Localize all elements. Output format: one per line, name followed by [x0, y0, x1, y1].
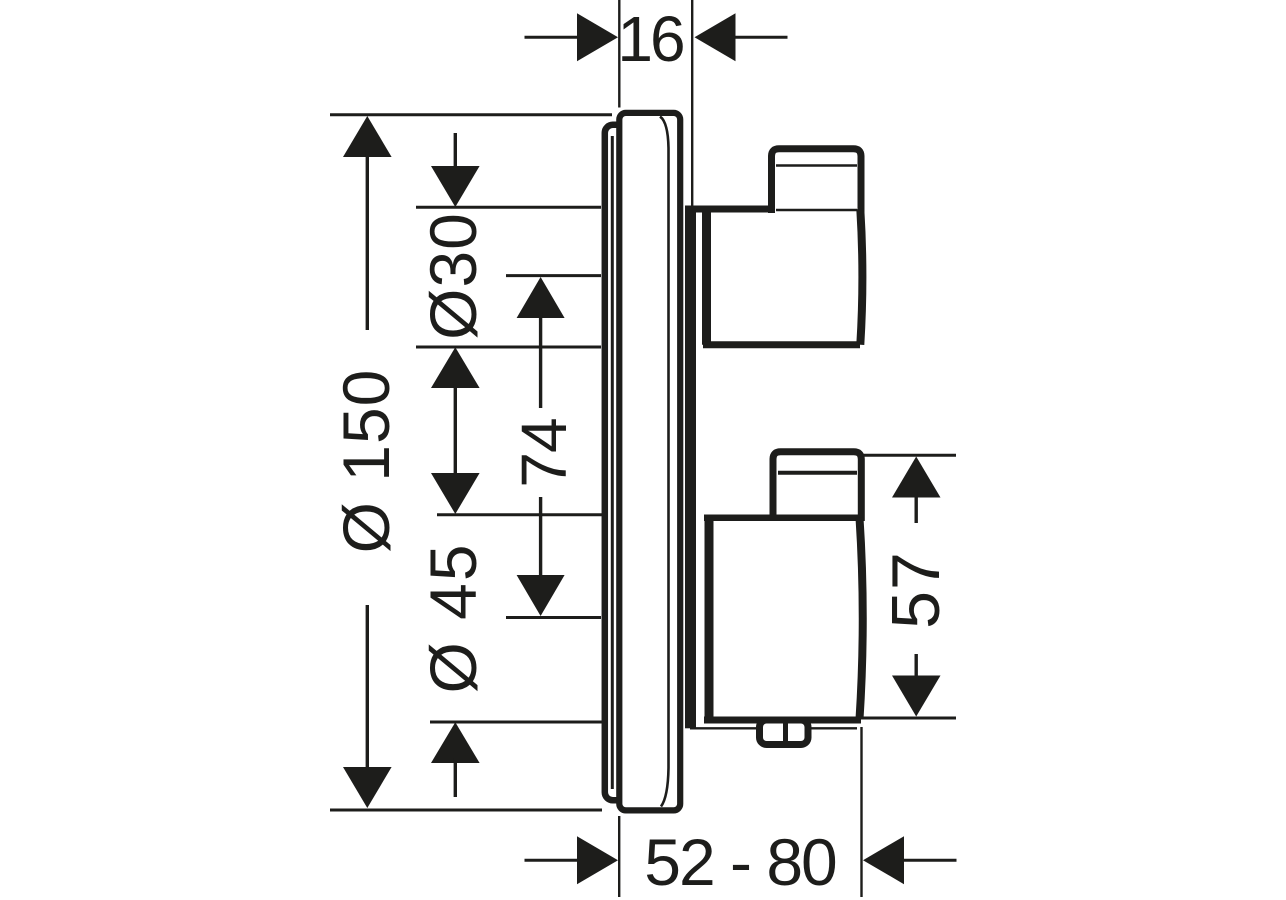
- dimension 74 upper tail: [539, 312, 542, 408]
- dimension D30 top arrow: [431, 166, 480, 207]
- svg-text:Ø 150: Ø 150: [329, 369, 403, 554]
- upper knob body top edge behind grip: [776, 209, 857, 211]
- dimension 57 bottom arrow: [892, 676, 941, 717]
- dimension 52-80 left tail: [525, 859, 582, 862]
- upper handle grip outline: [772, 149, 862, 213]
- dimension 74 bottom extension line: [506, 616, 601, 619]
- lower knob body left edge: [705, 518, 714, 720]
- dimension 16 left arrow: [577, 13, 618, 61]
- escutcheon front plate outline: [619, 113, 680, 811]
- upper knob body bottom edge: [703, 341, 860, 348]
- hub bottom thin line: [690, 727, 857, 729]
- shared tail D30-D45: [454, 384, 457, 473]
- dimension 52-80 left arrow: [577, 836, 618, 884]
- svg-text:52 - 80: 52 - 80: [644, 825, 836, 899]
- dimension D150 top extension line: [330, 113, 612, 116]
- lower knob body bottom edge: [704, 717, 861, 724]
- lower knob body right edge: [860, 518, 863, 720]
- dimension 74 top arrow: [517, 277, 565, 318]
- dimension 57 top extension line: [858, 454, 956, 457]
- dimension D45 bottom arrow: [431, 722, 480, 763]
- lower knob body top edge: [704, 514, 858, 521]
- dimension 52-80 right extension line: [860, 727, 862, 897]
- dimension D45 top arrow: [431, 473, 480, 514]
- dimension 74 bottom arrow: [517, 575, 565, 616]
- dimension D150 upper tail: [366, 150, 369, 330]
- dimension D45 bottom tail: [454, 758, 457, 797]
- svg-text:Ø 45: Ø 45: [416, 542, 490, 693]
- dimension D30 bottom extension line: [416, 346, 601, 349]
- dimension 57 lower tail: [915, 654, 918, 682]
- hub/collar silhouette bar: [685, 206, 696, 729]
- back plate inner rim line: [611, 136, 614, 789]
- upper grip inner line: [776, 164, 857, 166]
- dimension 52-80 right arrow: [863, 836, 904, 884]
- dimension 57 upper tail: [915, 492, 918, 523]
- upper knob body right edge: [860, 209, 862, 345]
- lower handle grip outline: [773, 452, 861, 521]
- dimension 57 bottom extension line: [856, 717, 956, 720]
- front face inner contour line: [660, 117, 669, 807]
- tab divider: [783, 719, 788, 741]
- dimension 74 lower tail: [539, 497, 542, 581]
- svg-text:57: 57: [878, 551, 954, 629]
- dimension 74 top extension line: [506, 274, 601, 277]
- dimension 52-80 left extension line: [618, 816, 620, 897]
- dimension 52-80 right tail: [900, 859, 957, 862]
- escutcheon back plate rim: [605, 125, 641, 801]
- dimension D150 bottom arrow: [343, 767, 392, 808]
- lower knob bottom tab: [760, 720, 809, 745]
- svg-text:16: 16: [617, 3, 683, 75]
- dimension 16 right arrow: [695, 13, 736, 61]
- dimension D150 top arrow: [343, 116, 392, 157]
- svg-text:Ø30: Ø30: [416, 212, 490, 340]
- dimension D30 top tail: [454, 133, 457, 172]
- svg-text:74: 74: [508, 418, 580, 487]
- dimension D45 top extension line: [437, 513, 602, 516]
- dimension 57 top arrow: [892, 457, 941, 498]
- dimension D45 bottom extension line: [430, 721, 602, 724]
- dimension D150 bottom extension line: [330, 809, 602, 812]
- dimension 16 right tail: [731, 36, 788, 39]
- dimension D30 bottom arrow: [431, 347, 480, 388]
- upper knob body left edge: [702, 209, 711, 345]
- dimension 16 right extension line: [691, 0, 693, 206]
- dimension D30 top extension line: [416, 206, 601, 209]
- upper knob body top edge: [689, 206, 772, 213]
- dimension D150 lower tail: [366, 605, 369, 773]
- dimension 16 left extension line: [618, 0, 620, 108]
- lower grip inner line: [778, 471, 857, 475]
- dimension 16 left tail: [525, 36, 582, 39]
